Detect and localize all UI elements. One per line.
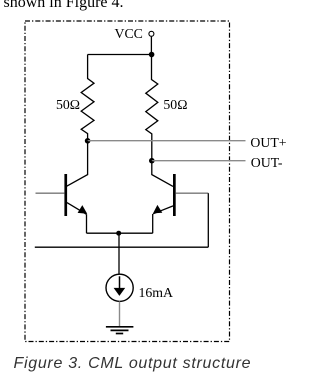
- VCC terminal: [115, 26, 154, 41]
- svg-text:OUT+: OUT+: [250, 135, 286, 150]
- node OUT+: [85, 135, 287, 150]
- wire Q2 emitter: [152, 214, 154, 233]
- svg-text:50Ω: 50Ω: [56, 97, 80, 112]
- resistor R2 50Ω: [146, 55, 188, 161]
- wire bottom horizontal: [35, 246, 209, 248]
- wire right loop vertical: [207, 193, 209, 247]
- transistor Q1: [64, 174, 87, 216]
- svg-text:50Ω: 50Ω: [163, 97, 187, 112]
- wire ground stem: [119, 301, 121, 326]
- current source I1 16mA: [106, 274, 173, 301]
- svg-text:Figure 3. CML output structure: Figure 3. CML output structure: [14, 355, 252, 372]
- junction tail node: [116, 231, 121, 236]
- svg-text:16mA: 16mA: [139, 285, 174, 300]
- resistor R1 50Ω: [56, 55, 94, 141]
- ground: [106, 327, 133, 334]
- junction top rail: [149, 52, 155, 58]
- wire tail stem: [118, 233, 120, 274]
- svg-text:OUT-: OUT-: [251, 155, 283, 170]
- transistor Q2: [153, 174, 176, 216]
- wire Q1 emitter: [86, 214, 88, 233]
- wire Q2 collector: [152, 161, 173, 187]
- wire emitter bus: [87, 232, 153, 234]
- wire top rail: [88, 54, 152, 56]
- wire Q1 collector: [67, 141, 88, 187]
- svg-text:shown in Figure 4.: shown in Figure 4.: [4, 0, 124, 11]
- svg-text:VCC: VCC: [115, 26, 143, 41]
- node OUT-: [149, 155, 283, 170]
- wire Q2 base: [176, 192, 209, 194]
- wire Q1 base stub: [36, 192, 65, 194]
- wire VCC stem: [150, 37, 152, 55]
